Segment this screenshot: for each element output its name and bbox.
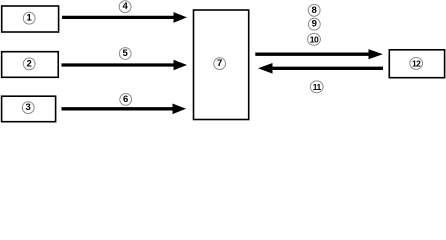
svg-text:2: 2 xyxy=(27,58,32,69)
svg-text:10: 10 xyxy=(310,34,319,44)
svg-text:9: 9 xyxy=(312,19,317,30)
svg-text:7: 7 xyxy=(217,58,222,69)
svg-text:4: 4 xyxy=(122,1,128,12)
svg-text:11: 11 xyxy=(313,82,322,92)
svg-text:1: 1 xyxy=(27,13,33,24)
svg-text:5: 5 xyxy=(123,48,129,59)
svg-text:12: 12 xyxy=(412,58,421,68)
svg-text:6: 6 xyxy=(123,94,128,105)
svg-text:8: 8 xyxy=(312,5,317,16)
svg-text:3: 3 xyxy=(26,102,31,113)
